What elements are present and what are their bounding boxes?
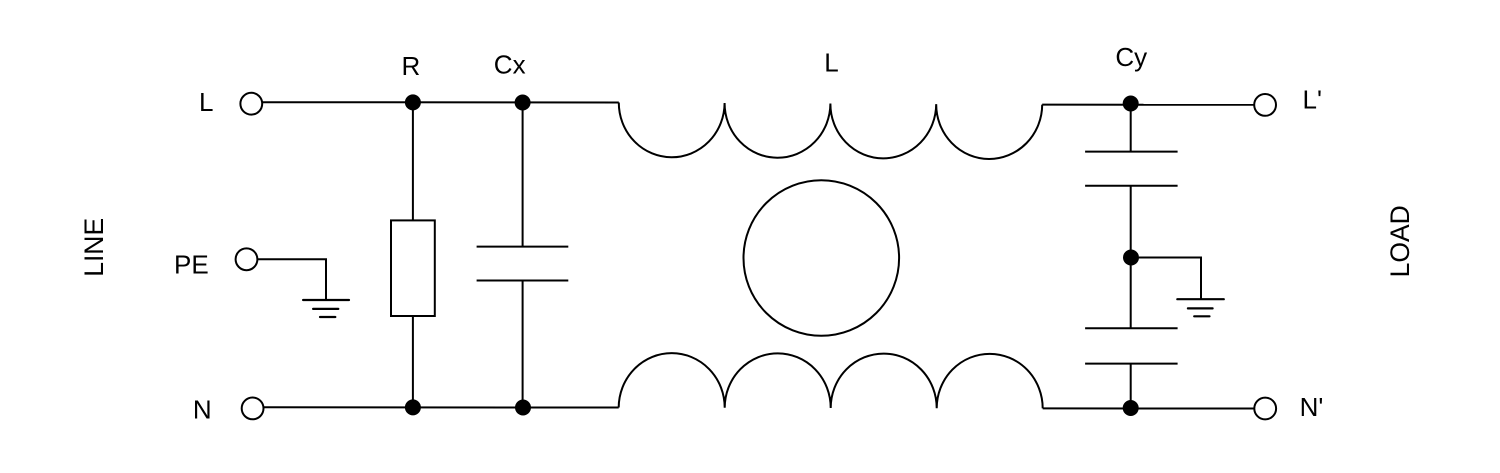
wire Cx vertical upper [522,102,524,246]
wire Cy midpoint to ground [1139,258,1201,300]
wire Cx vertical lower [522,281,524,408]
node Cx junction (bottom) [515,400,531,416]
svg-text:R: R [402,51,421,81]
svg-text:L: L [199,87,213,117]
svg-text:PE: PE [174,249,209,279]
svg-text:N': N' [1300,392,1324,422]
inductor L core circle [744,180,900,336]
resistor R [391,220,435,316]
ground (Cy) [1177,299,1224,316]
terminal L' [1254,94,1276,116]
wire bottom right (choke to N') [1043,407,1255,409]
capacitor Cy lower [1085,328,1178,363]
ground (PE) [303,300,349,317]
wire bottom left (N to choke) [264,406,619,408]
svg-text:N: N [193,395,212,425]
wire Cy vertical lower [1130,364,1132,409]
terminal N' [1254,398,1276,420]
inductor L top winding [619,103,1042,159]
inductor L bottom winding [619,353,1043,408]
svg-text:LINE: LINE [79,218,109,277]
svg-text:Cy: Cy [1115,42,1147,72]
node Cy junction (bottom) [1123,400,1139,416]
wire top left (L to choke) [262,101,619,103]
wire R node vertical upper [412,102,414,220]
capacitor Cx [477,247,569,281]
terminal L [240,93,262,115]
node Cx junction (top) [515,95,531,111]
svg-text:L': L' [1303,84,1322,114]
node R junction (bottom) [405,399,421,415]
node Cy midpoint [1123,250,1139,266]
svg-text:LOAD: LOAD [1385,205,1415,277]
svg-text:Cx: Cx [494,49,526,79]
node L/R junction (top) [405,94,421,110]
wire Cy vertical middle [1130,186,1132,328]
terminal PE [236,248,258,270]
capacitor Cy upper [1085,152,1178,186]
wire Cy vertical upper [1130,105,1132,152]
wire top right (choke to L') [1042,104,1254,106]
wire PE to ground [257,259,326,300]
terminal N [242,398,264,420]
svg-text:L: L [824,48,838,78]
node Cy junction (top) [1123,96,1139,112]
wire R node vertical lower [412,316,414,407]
